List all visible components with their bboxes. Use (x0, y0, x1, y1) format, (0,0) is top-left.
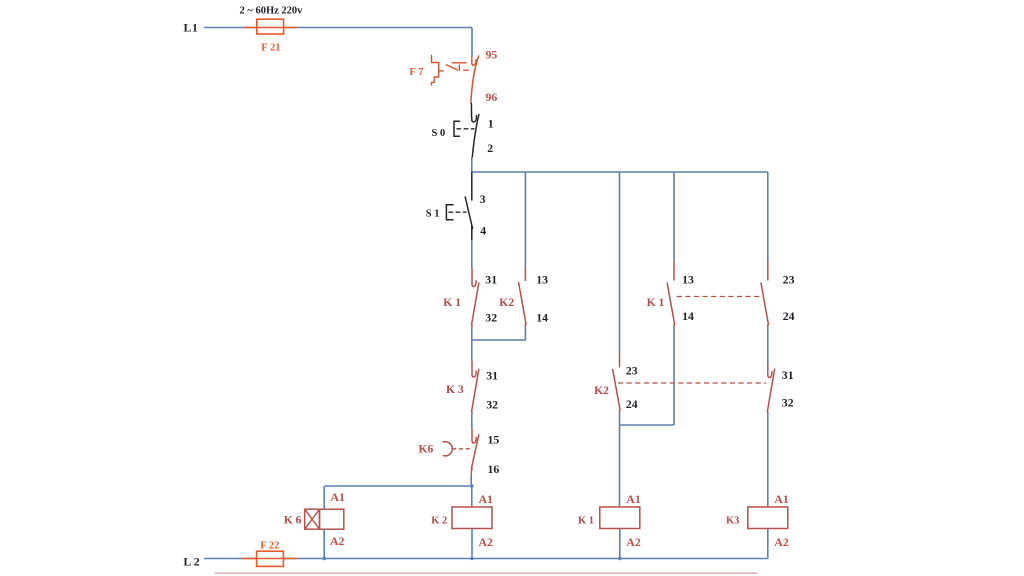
svg-text:A1: A1 (479, 492, 494, 506)
svg-text:S 1: S 1 (426, 209, 440, 220)
svg-text:95: 95 (486, 48, 498, 62)
svg-text:4: 4 (480, 224, 486, 238)
svg-text:F 21: F 21 (261, 43, 280, 54)
svg-text:L 2: L 2 (183, 555, 199, 569)
svg-text:K3: K3 (726, 515, 739, 526)
svg-text:32: 32 (485, 310, 497, 324)
svg-text:L1: L1 (184, 20, 199, 34)
svg-text:14: 14 (682, 309, 694, 323)
svg-text:S 0: S 0 (432, 128, 446, 139)
svg-text:K 2: K 2 (431, 515, 447, 526)
svg-text:K 1: K 1 (443, 296, 461, 309)
svg-text:32: 32 (782, 396, 794, 410)
svg-text:F 7: F 7 (410, 67, 424, 78)
svg-text:31: 31 (485, 273, 497, 287)
svg-text:A2: A2 (479, 535, 494, 549)
svg-text:16: 16 (488, 462, 500, 476)
svg-text:K6: K6 (419, 443, 434, 456)
svg-text:A1: A1 (774, 492, 789, 506)
svg-text:23: 23 (783, 273, 795, 287)
svg-text:23: 23 (626, 363, 638, 377)
svg-text:24: 24 (626, 397, 638, 411)
svg-text:K2: K2 (499, 296, 514, 309)
svg-text:A2: A2 (774, 535, 789, 549)
svg-text:3: 3 (480, 192, 486, 206)
svg-text:14: 14 (536, 310, 548, 324)
svg-text:A2: A2 (626, 535, 641, 549)
svg-text:A1: A1 (331, 490, 346, 504)
svg-text:1: 1 (488, 117, 494, 131)
svg-text:K 3: K 3 (446, 383, 464, 396)
svg-text:24: 24 (783, 309, 795, 323)
svg-text:13: 13 (536, 273, 548, 287)
svg-text:96: 96 (486, 90, 498, 104)
svg-text:2 ~ 60Hz 220v: 2 ~ 60Hz 220v (240, 6, 304, 17)
svg-text:31: 31 (782, 368, 794, 382)
svg-text:K2: K2 (594, 384, 609, 397)
svg-text:A2: A2 (330, 534, 345, 548)
svg-text:K 6: K 6 (284, 513, 302, 526)
svg-text:13: 13 (682, 273, 694, 287)
svg-text:K 1: K 1 (647, 296, 665, 309)
svg-text:A1: A1 (626, 492, 641, 506)
svg-text:2: 2 (487, 141, 493, 155)
svg-text:32: 32 (486, 398, 498, 412)
svg-text:F 22: F 22 (260, 540, 279, 551)
svg-text:K 1: K 1 (578, 515, 594, 526)
svg-text:15: 15 (488, 433, 500, 447)
svg-text:31: 31 (486, 369, 498, 383)
